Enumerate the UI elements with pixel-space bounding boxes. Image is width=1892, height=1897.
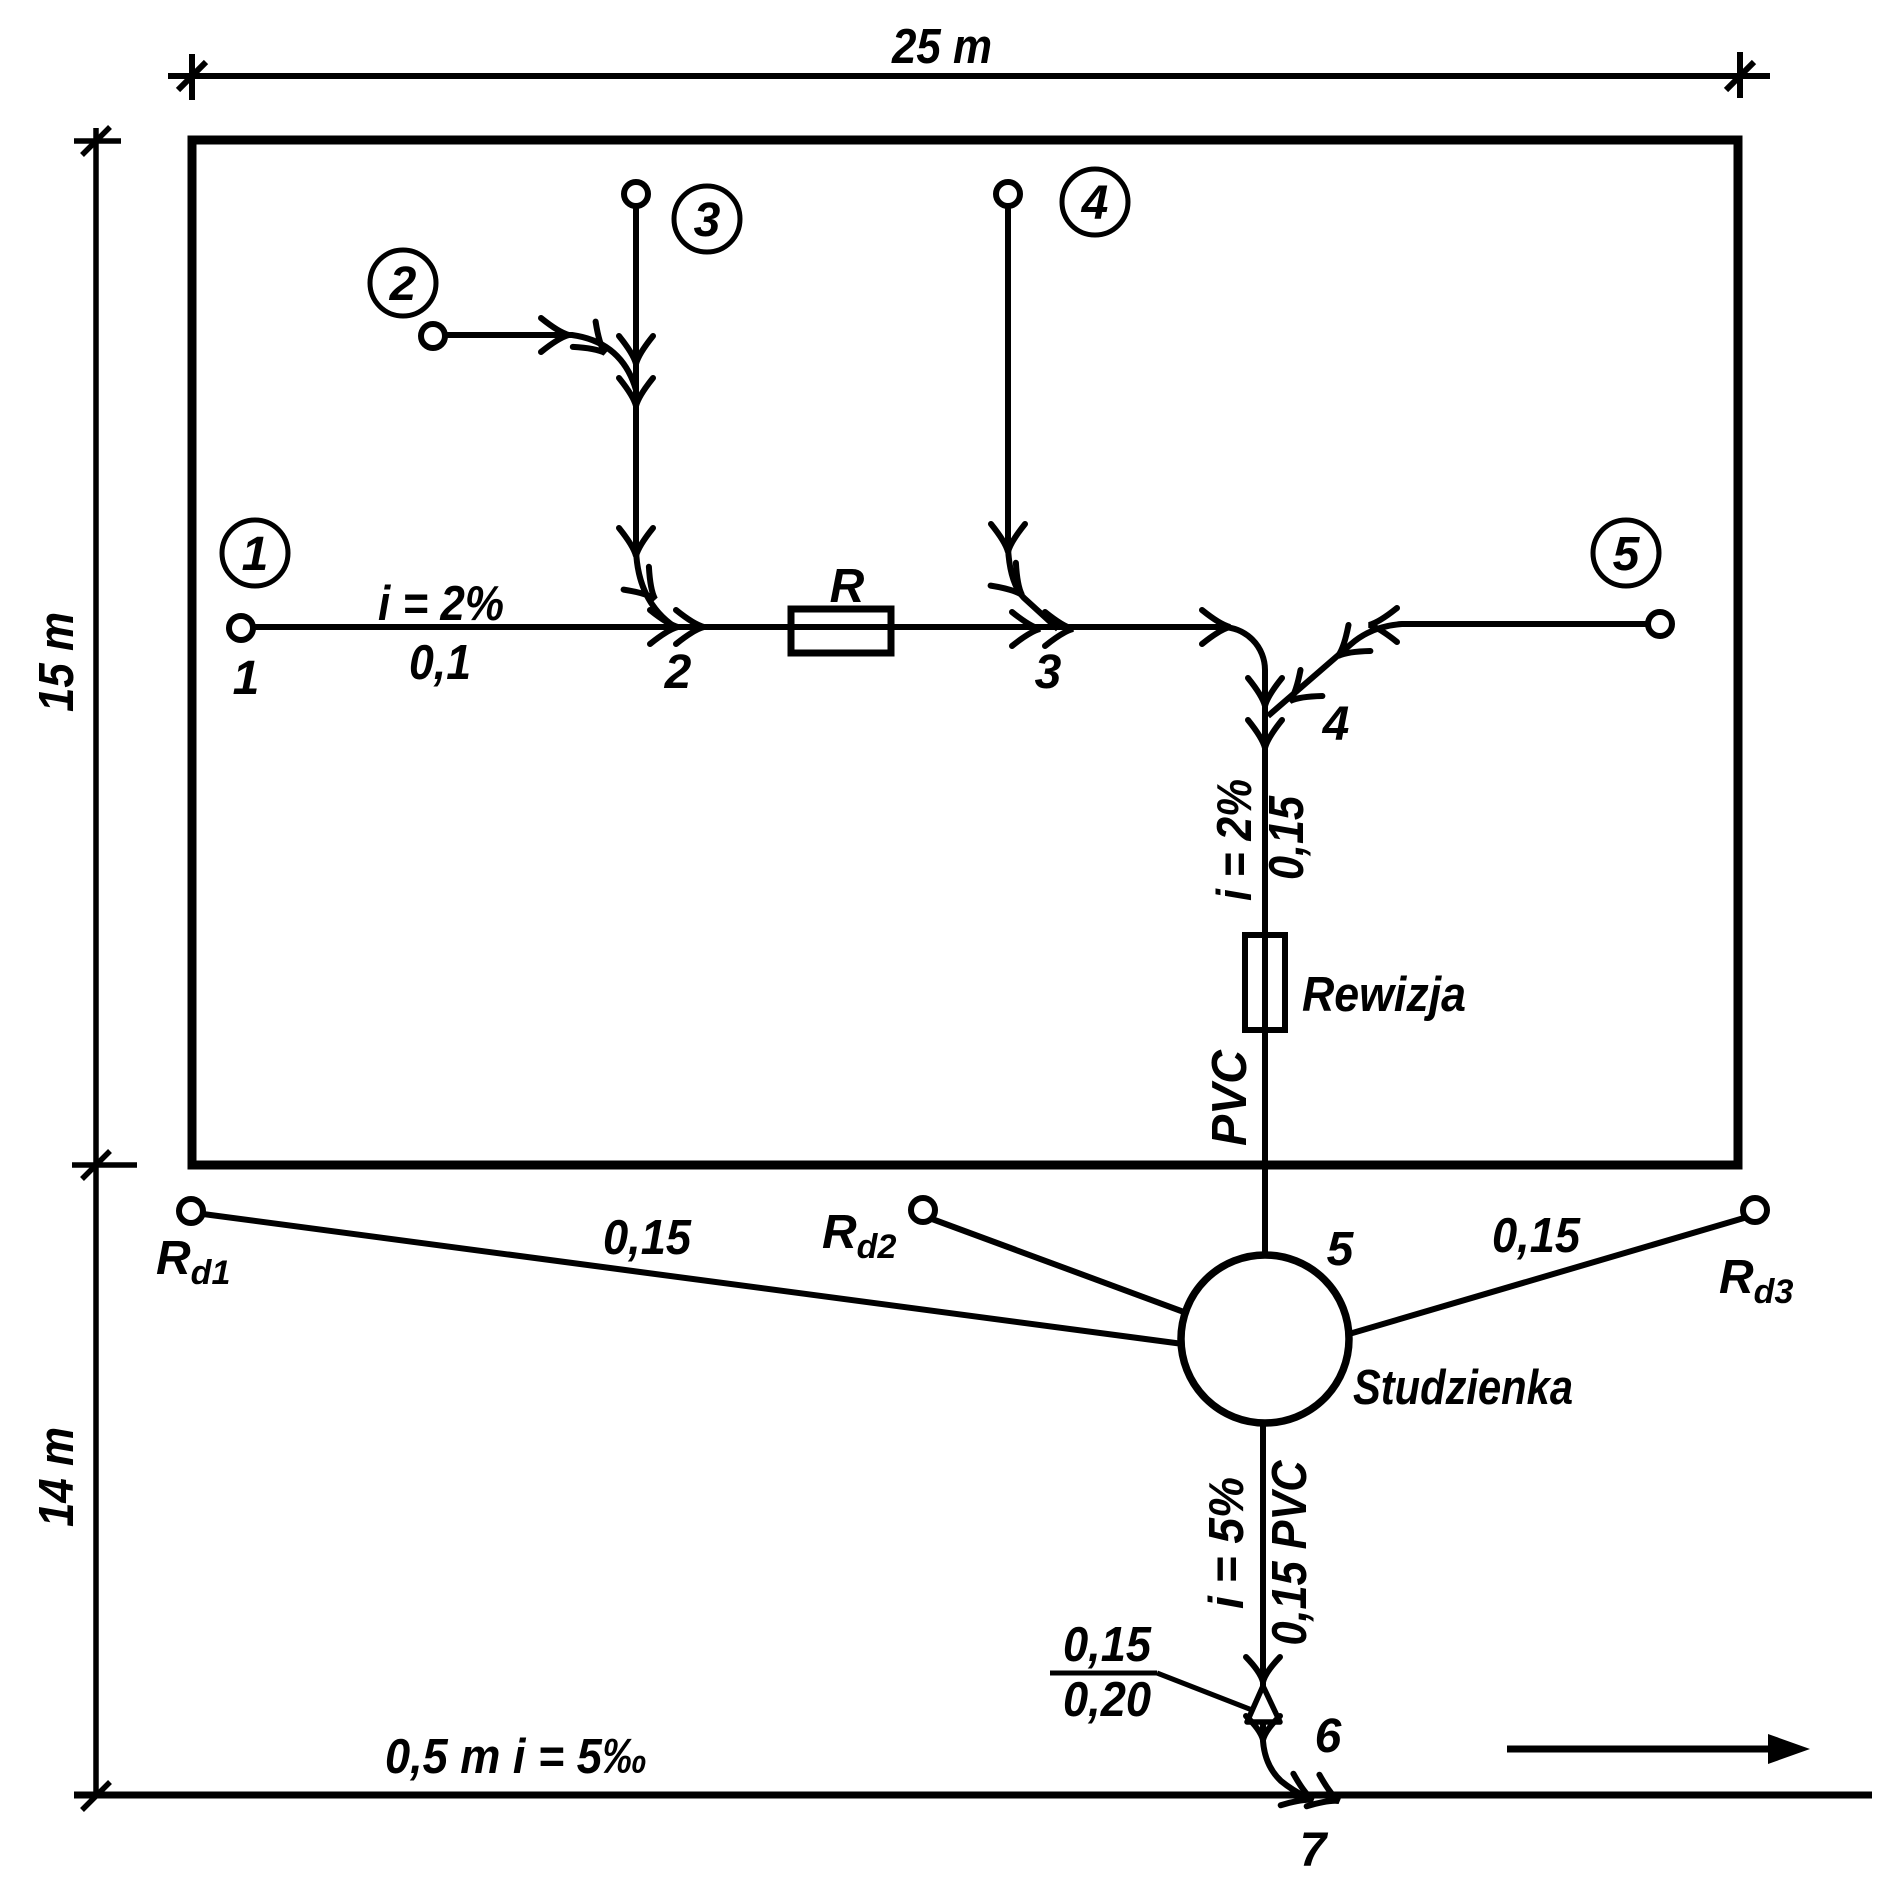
dimension line 25 m (top): [168, 52, 1770, 100]
flow arrow branch 3 above merge: [619, 336, 653, 364]
svg-text:0,20: 0,20: [1063, 1673, 1151, 1727]
node 5 drain (inlet circle): [1648, 612, 1672, 636]
circled drain number 5: [1593, 520, 1659, 586]
street line: [74, 1792, 1872, 1799]
svg-text:0,5 m i = 5‰: 0,5 m i = 5‰: [385, 1730, 647, 1784]
flow arrow branch 5 diagonal lower: [1290, 670, 1322, 701]
manhole Studzienka (circle, node 5): [1181, 1255, 1349, 1423]
pipe manhole to street (i=5% 0,15 PVC): [1260, 1423, 1266, 1686]
svg-text:0,15: 0,15: [1492, 1209, 1581, 1263]
roof drain Rd1 (circle): [179, 1199, 203, 1223]
flow arrow branch 3 below merge: [619, 378, 653, 406]
pipe branch from drain 4: [1008, 206, 1058, 629]
svg-text:3: 3: [1035, 646, 1062, 699]
circled drain number 3: [674, 186, 740, 252]
pipe segment 1-2-3-4 (main horizontal, i=2% 0,1): [253, 627, 1265, 1256]
svg-text:i = 5%: i = 5%: [1200, 1477, 1254, 1609]
circled drain number 2: [370, 250, 436, 316]
flow arrow branch 4 vertical: [991, 524, 1025, 552]
svg-text:0,15 PVC: 0,15 PVC: [1263, 1460, 1317, 1646]
double flow arrow at street junction 7: [1281, 1774, 1339, 1807]
flow arrow branch 5 diagonal upper: [1338, 625, 1370, 656]
svg-text:PVC: PVC: [1203, 1049, 1257, 1146]
circled drain number 4: [1062, 169, 1128, 235]
label 0,15 over 0,20 (reducer): [1050, 1618, 1252, 1727]
pipe below reducer to street: [1263, 1722, 1306, 1797]
double flow arrow after junction 2: [650, 610, 704, 644]
svg-text:R: R: [830, 560, 865, 613]
svg-text:2: 2: [389, 258, 417, 311]
pipe from roof drain Rd2: [932, 1219, 1192, 1315]
double flow arrow after junction 3: [1012, 612, 1073, 646]
pipe from roof drain Rd3: [1349, 1218, 1744, 1334]
node 3 drain (inlet circle): [624, 182, 648, 206]
svg-text:Rewizja: Rewizja: [1302, 968, 1466, 1022]
pipe branch from drain 2: [446, 335, 636, 390]
svg-text:4: 4: [1322, 698, 1350, 751]
pipe branch from drain 5: [1268, 624, 1648, 716]
flow arrow downpipe above junction 4: [1248, 678, 1282, 706]
flow arrow branch 5 horizontal: [1369, 608, 1397, 642]
svg-text:0,15: 0,15: [1063, 1618, 1152, 1672]
building outline: [192, 140, 1738, 1165]
svg-text:0,15: 0,15: [1260, 795, 1314, 880]
node 2 drain (inlet circle): [421, 324, 445, 348]
flow arrow branch 4 curve: [991, 563, 1022, 595]
flow arrow on branch 2 curve: [573, 322, 605, 353]
pipe from roof drain Rd1: [203, 1214, 1183, 1344]
pipe branch from drain 3: [636, 206, 675, 627]
svg-text:25 m: 25 m: [891, 20, 992, 74]
svg-text:14 m: 14 m: [30, 1427, 84, 1527]
svg-text:i = 2%: i = 2%: [378, 577, 504, 631]
svg-text:15 m: 15 m: [30, 612, 84, 712]
flow arrow on main before bend: [1202, 610, 1230, 644]
svg-text:4: 4: [1081, 177, 1109, 230]
svg-text:1: 1: [233, 652, 260, 705]
reducer symbol (triangle): [1247, 1686, 1280, 1722]
flow arrow branch 3 lower: [619, 528, 653, 556]
flow arrow below reducer: [1246, 1716, 1280, 1740]
svg-text:5: 5: [1613, 528, 1641, 581]
svg-text:5: 5: [1327, 1223, 1355, 1276]
svg-text:3: 3: [694, 194, 721, 247]
svg-text:0,1: 0,1: [409, 636, 471, 690]
node 4 drain (inlet circle): [996, 182, 1020, 206]
dimension line 15 m / 14 m (left): [72, 127, 137, 1810]
svg-text:2: 2: [664, 646, 692, 699]
inspection fitting Rewizja: [1245, 935, 1285, 1030]
flow arrow branch 3 curve: [624, 567, 655, 599]
svg-text:Rd2: Rd2: [822, 1206, 896, 1266]
svg-text:Studzienka: Studzienka: [1353, 1361, 1573, 1415]
svg-text:7: 7: [1300, 1824, 1329, 1877]
svg-text:6: 6: [1315, 1710, 1342, 1763]
street flow arrow: [1507, 1734, 1810, 1764]
svg-text:1: 1: [242, 528, 269, 581]
svg-text:Rd3: Rd3: [1719, 1251, 1793, 1311]
flow arrow downpipe below junction 4: [1248, 720, 1282, 748]
circled drain number 1: [222, 520, 288, 586]
cleanout R on main pipe: [791, 609, 891, 653]
svg-text:0,15: 0,15: [603, 1211, 692, 1265]
flow arrow on branch 2: [541, 318, 569, 352]
node 1 drain (inlet circle): [229, 616, 253, 640]
flow arrow above reducer: [1246, 1657, 1280, 1682]
svg-text:i = 2%: i = 2%: [1208, 779, 1262, 901]
roof drain Rd3 (circle): [1743, 1198, 1767, 1222]
roof drain Rd2 (circle): [911, 1198, 935, 1222]
svg-text:Rd1: Rd1: [156, 1232, 230, 1292]
